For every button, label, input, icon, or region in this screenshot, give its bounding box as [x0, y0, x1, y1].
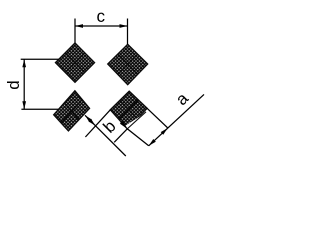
- svg-text:d: d: [4, 80, 23, 89]
- svg-text:c: c: [97, 7, 106, 26]
